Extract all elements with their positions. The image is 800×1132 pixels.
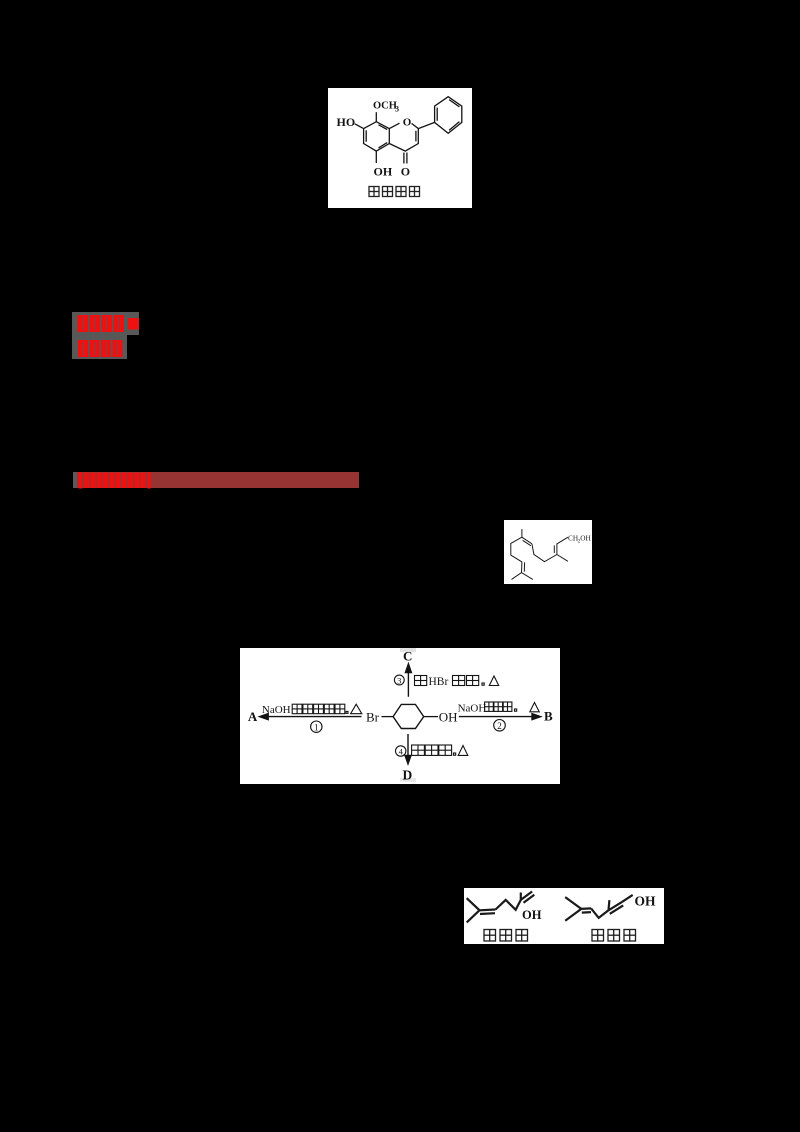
isopropylidene double bond second line [523,562,525,571]
phenyl ring [435,97,462,134]
methyl tick on C3 [521,529,523,537]
line 2 blobs [78,340,88,357]
svg-text:OH: OH [580,533,591,542]
gem-dimethyl [512,572,533,579]
8-OCH3 bond [375,112,377,122]
left chain [511,537,522,572]
caption 芳樟醇 [484,930,528,942]
circled 3 [394,675,404,686]
reaction box top gray nub [400,648,416,651]
answer highlight gray patch (lower) [72,335,127,359]
svg-text:OH: OH [439,710,458,725]
svg-text:OCH: OCH [373,101,397,112]
answer highlight gray patch (upper) [72,312,139,335]
svg-text:Br: Br [366,710,380,725]
geraniol structure [565,895,633,921]
heading red text [72,468,162,492]
carbonyl C4=O [403,153,405,164]
svg-text:HO: HO [337,115,356,129]
svg-text:1: 1 [314,723,319,733]
svg-text:4: 4 [399,747,404,757]
pyran ring [389,123,399,128]
svg-text:3: 3 [395,105,399,114]
left arrow [260,714,362,720]
svg-text:2: 2 [497,721,502,731]
up arrow [405,664,411,697]
svg-text:O: O [401,165,410,179]
right C=C second line [553,545,555,553]
right arrow [459,714,541,720]
caption 香叶醇 [592,930,636,942]
svg-text:OH: OH [634,894,656,909]
svg-text:HBr: HBr [429,676,449,688]
svg-text:A: A [248,709,258,724]
circled 4 [396,746,406,757]
mid chain [532,537,568,562]
trisubstituted C=C [522,537,532,544]
circled 1 [311,721,322,733]
circled 2 [494,720,506,732]
7-HO bond [355,124,364,129]
A-ring benzene [364,122,390,151]
A-ring inner double bonds [379,125,388,130]
down arrow [405,734,411,764]
reaction box bottom gray nub [400,778,416,782]
svg-text:NaOH: NaOH [458,702,487,714]
svg-text:3: 3 [397,676,401,686]
svg-text:B: B [544,709,553,724]
cyclohexane ring [393,704,424,728]
line 1 blobs [78,315,89,332]
svg-text:O: O [403,117,412,129]
wogonin structure box [328,88,472,208]
red answer text [70,308,150,362]
linalool structure [466,892,534,923]
phenyl inner double bonds [449,100,459,107]
reagent 浓硫酸，△ [412,745,468,755]
heading bar gray tip [73,472,78,488]
svg-text:OH: OH [374,165,393,179]
reaction scheme box [240,648,560,784]
geraniol structure box [504,520,592,584]
svg-text:C: C [403,649,412,664]
svg-text:NaOH: NaOH [262,704,291,716]
maroon heading bar [73,472,359,488]
answer letter blob [128,318,139,330]
caption 汉黄芩素 (pseudo glyphs) [369,187,420,197]
linalool / geraniol box [464,888,664,944]
svg-text:OH: OH [522,908,542,922]
terminal methyl [557,554,568,561]
bond ring-OH [424,716,438,718]
svg-text:D: D [403,768,413,783]
5-OH bond [375,151,377,163]
C2-phenyl bond [418,122,434,128]
bond Br-ring [382,716,394,718]
C2=C3 inner double [415,131,417,142]
reagent text 浓HBr溶液，△ [415,676,427,686]
